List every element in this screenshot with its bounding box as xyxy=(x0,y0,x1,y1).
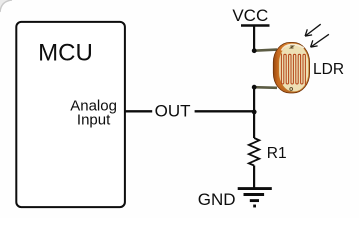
wire OUT left segment xyxy=(125,110,152,112)
LDR serpentine track xyxy=(281,54,305,85)
svg-text:VCC: VCC xyxy=(232,6,268,25)
svg-text:Input: Input xyxy=(77,112,111,129)
LDR bottom contact mark xyxy=(290,88,293,91)
page corner artifact top-left xyxy=(0,0,12,12)
wire VCC to LDR top lead xyxy=(253,26,255,52)
ground xyxy=(238,189,272,206)
svg-text:GND: GND xyxy=(198,190,236,209)
wire R1 to ground xyxy=(253,166,255,189)
light arrow 2 xyxy=(311,34,329,47)
junction dot OUT tap xyxy=(252,110,257,115)
light arrow 1 xyxy=(305,24,321,36)
wire OUT right segment xyxy=(195,110,255,112)
junction dot top (VCC-LDR) xyxy=(252,48,257,53)
VCC rail bar xyxy=(241,24,270,26)
LDR body xyxy=(273,42,309,93)
svg-text:MCU: MCU xyxy=(38,39,93,66)
svg-text:R1: R1 xyxy=(267,145,287,162)
wire LDR bottom lead down through OUT tap to R1 xyxy=(253,87,255,138)
LDR lead bottom xyxy=(254,86,277,89)
junction dot middle (LDR-R1 net) xyxy=(252,85,257,90)
LDR top contact mark xyxy=(290,46,293,48)
svg-text:OUT: OUT xyxy=(155,101,191,120)
LDR lead top xyxy=(254,50,277,51)
MCU box U1 xyxy=(16,22,125,207)
resistor R1 xyxy=(249,138,259,166)
svg-text:LDR: LDR xyxy=(313,61,344,78)
label Analog Input xyxy=(70,97,117,128)
